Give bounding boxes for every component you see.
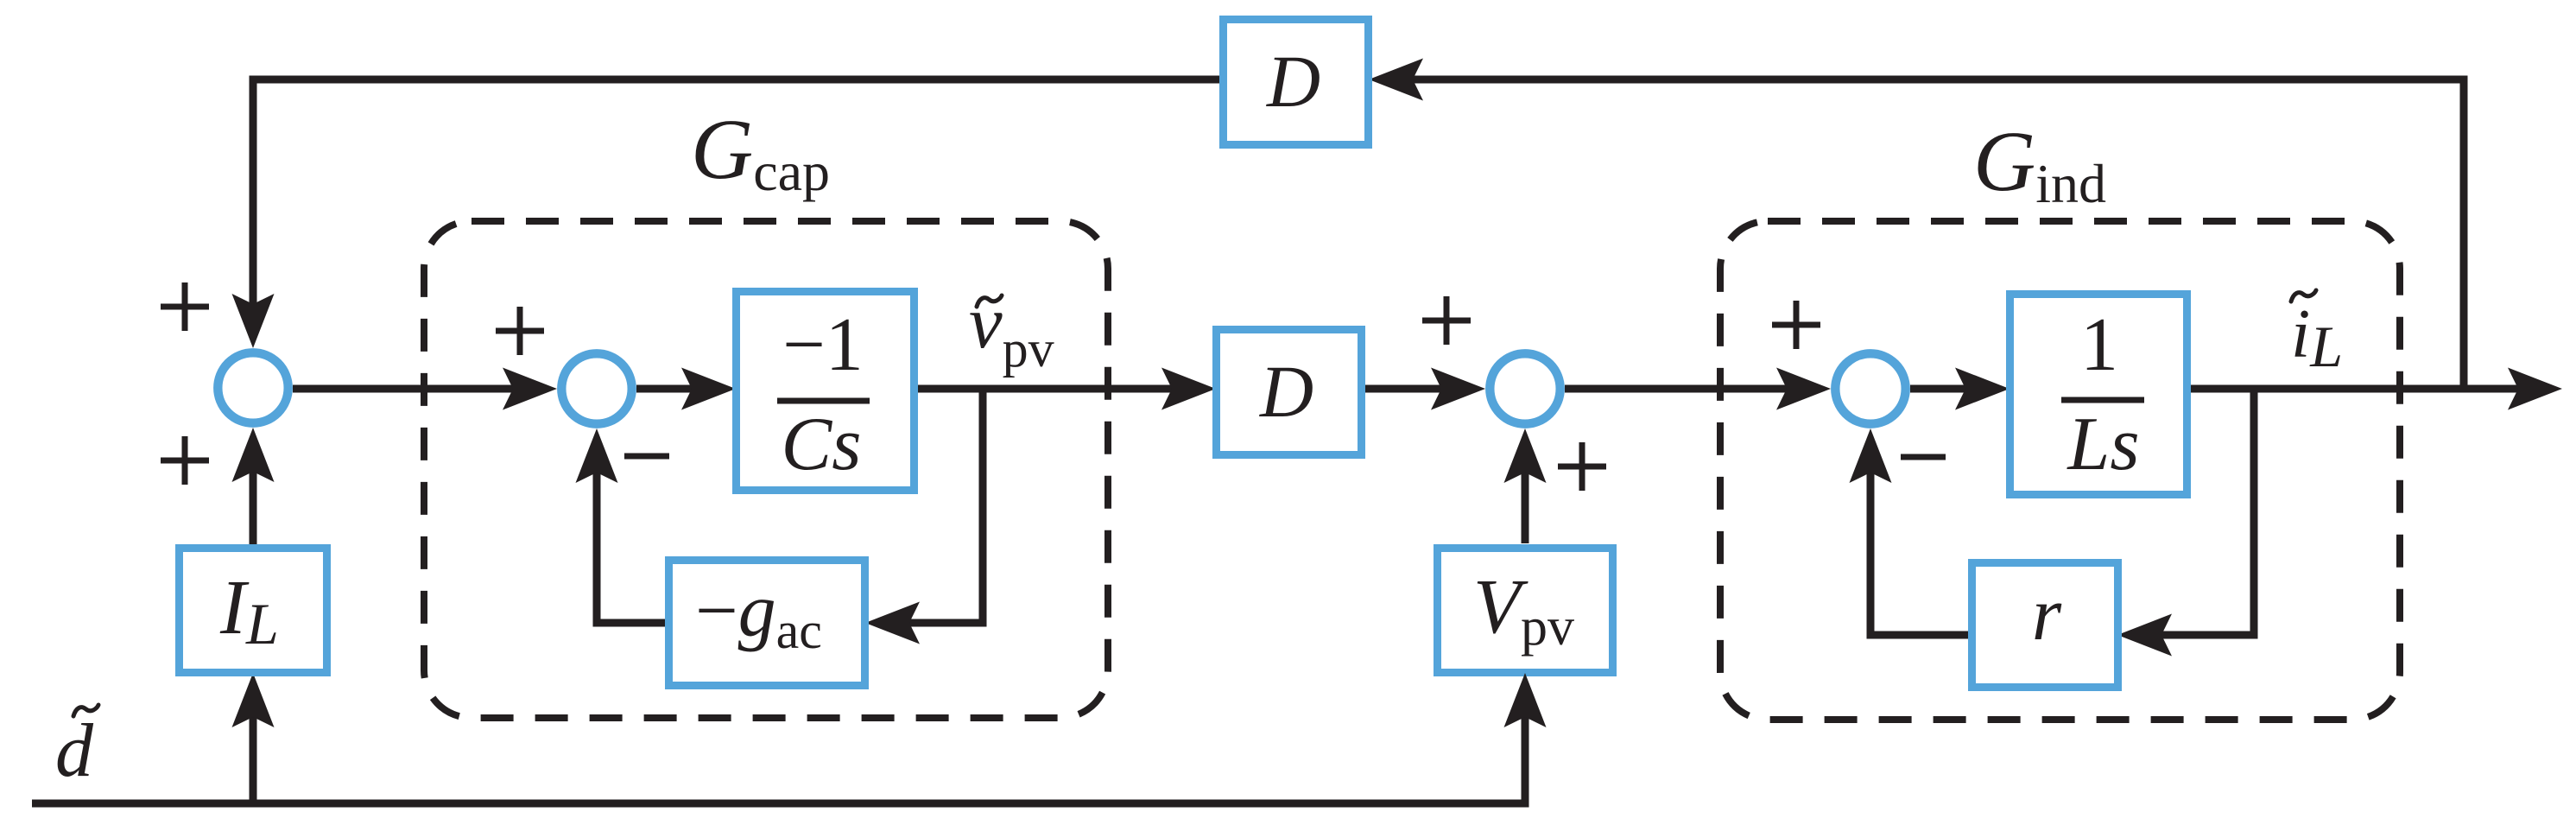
wire r output up to S4 [1870,461,1968,635]
wire S1 to S2 [293,385,524,393]
block D (top feedback) [1224,20,1369,145]
svg-text:−1: −1 [782,303,864,387]
wire I_L up to S1 [250,460,257,544]
svg-text:D: D [1266,40,1320,123]
arrowhead into S1 top [232,294,275,348]
block -g_ac [669,561,865,686]
arrowhead into 1/Ls block [1955,368,2010,410]
wire S4 to 1/Ls block [1910,385,1978,393]
summing junction S1 [218,352,288,422]
wire branch down from v_pv node to -g_ac input [900,389,983,623]
wire: feedback from output branch to top D block [1403,79,2464,389]
wire branch up to I_L [250,710,257,803]
summing junction S2 [561,353,631,423]
svg-text:iL: iL [2291,296,2343,379]
svg-text:Gind: Gind [1973,113,2106,214]
summing junction S4 [1835,353,1905,423]
plus sign at S3 bottom input [1558,442,1606,491]
block -1/Cs [737,292,915,491]
fraction bar of -1/Cs [777,398,870,404]
plus sign at S1 bottom input [161,436,209,485]
block I_L [180,549,327,673]
wire branch down from i_L node to r input [2150,389,2254,635]
svg-text:Ls: Ls [2066,403,2139,486]
plus sign at S3 left input [1422,296,1471,345]
wire S2 to block -1/Cs [636,385,703,393]
arrowhead into S4 left [1776,368,1831,410]
svg-text:D: D [1259,350,1313,433]
wire: top D block output to first summing junction [253,79,1219,307]
label i_L tilde [2291,290,2316,301]
arrowhead into middle D block [1161,368,1216,410]
plus sign at S4 left input [1772,301,1820,349]
block D (middle) [1217,330,1362,455]
arrowhead into I_L bottom [232,673,275,727]
arrowhead into top D block right side [1369,59,1423,101]
wire stub above S1 [250,302,257,313]
dashed box G_cap [424,221,1108,718]
wire -g_ac output up to S2 [597,461,665,623]
wire middle D to S3 [1365,385,1456,393]
arrowhead into S4 bottom [1850,428,1892,483]
svg-text:Gcap: Gcap [691,101,830,202]
wire V_pv up to S3 [1522,460,1529,543]
fraction bar of 1/Ls [2061,397,2144,403]
arrowhead into S1 bottom [232,428,275,482]
arrowhead into -1/Cs block [681,368,736,410]
arrowhead output [2508,368,2562,410]
arrowhead into V_pv bottom [1504,673,1547,727]
arrowhead into S2 left [503,368,557,410]
svg-text:vpv: vpv [969,280,1054,378]
label d tilde [73,705,98,716]
svg-text:1: 1 [2080,303,2118,387]
plus sign at S1 top input [161,282,209,331]
minus sign at S4 bottom input [1901,454,1946,460]
plus sign at S2 left input [496,307,544,355]
minus sign at S2 bottom input [624,454,669,460]
wire output from 1/Ls to right edge [2191,385,2531,393]
arrowhead into S3 left [1431,368,1485,410]
block 1/Ls [2010,295,2187,495]
svg-text:Cs: Cs [782,403,862,486]
block V_pv [1438,549,1613,673]
dashed box G_ind [1720,221,2400,720]
svg-text:d: d [55,709,94,793]
wire -1/Cs output to middle D block [918,385,1181,393]
wire bottom d line [32,710,1525,803]
summing junction S3 [1490,353,1560,423]
svg-text:r: r [2032,573,2062,657]
arrowhead into -g_ac right side [865,602,920,644]
arrowhead into S2 bottom [576,428,618,483]
arrowhead into r block right side [2117,614,2172,657]
label v_pv tilde [977,295,1002,307]
wire S3 to S4 [1565,385,1797,393]
block r [1972,563,2118,688]
arrowhead into S3 bottom [1504,428,1547,483]
